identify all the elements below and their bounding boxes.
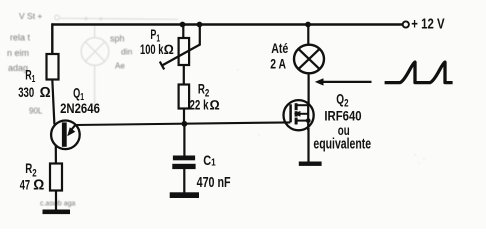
wire: node to C1	[183, 124, 185, 156]
svg-text:470 nF: 470 nF	[197, 175, 231, 191]
svg-text:rela t: rela t	[10, 33, 31, 43]
wire: rail to lamp	[307, 25, 309, 46]
wire: +12V top rail	[52, 23, 403, 25]
svg-text:100 k: 100 k	[140, 41, 164, 57]
svg-text:c.aswb aga: c.aswb aga	[40, 201, 76, 208]
svg-text:R1: R1	[25, 69, 35, 85]
ground (below R2)	[43, 210, 71, 215]
arrow: pointer to lamp wire	[315, 78, 372, 85]
junction dot: node / C1 tap	[182, 121, 188, 127]
wire: R2 to node	[183, 109, 185, 125]
transistor Q2 IRF640 (power MOSFET)	[284, 100, 314, 130]
ground (below C1)	[170, 192, 199, 198]
svg-text:330: 330	[18, 84, 34, 100]
capacitor C1	[172, 156, 195, 170]
resistor R2 (22k)	[179, 85, 190, 109]
svg-text:2 A: 2 A	[270, 55, 286, 71]
wire: node line Q1 emitter to Q2 gate	[75, 122, 290, 125]
potentiometer P1	[160, 25, 200, 70]
svg-text:47: 47	[20, 177, 31, 193]
svg-text:n eim: n eim	[7, 48, 29, 58]
resistor R1	[47, 54, 59, 80]
waveform: sawtooth (PWM ramp)	[385, 62, 453, 83]
svg-text:sph: sph	[110, 34, 125, 44]
svg-text:Ω: Ω	[40, 85, 51, 101]
wire: R1 to Q1 base2	[52, 80, 54, 125]
svg-text:Ω: Ω	[210, 98, 220, 113]
svg-text:Ω: Ω	[164, 42, 174, 57]
junction dot: rail / P1 wiper	[197, 22, 203, 28]
svg-text:90L: 90L	[29, 107, 43, 116]
junction dot: rail / P1 top	[180, 22, 186, 28]
wire: C1 to ground	[183, 169, 185, 193]
svg-text:V St +: V St +	[19, 11, 42, 21]
svg-text:2N2646: 2N2646	[60, 100, 100, 116]
lamp (load, até 2 A)	[294, 45, 324, 74]
wire: lamp to Q2 drain	[308, 73, 310, 104]
svg-text:C1: C1	[203, 153, 215, 169]
svg-text:din: din	[121, 47, 133, 57]
wire: rail to P1	[182, 25, 184, 39]
wire: R2 to ground	[55, 191, 57, 211]
svg-text:Ω: Ω	[33, 178, 44, 194]
wire: rail corner down to R1	[51, 23, 53, 54]
svg-text:equivalente: equivalente	[313, 137, 371, 153]
svg-text:+ 12 V: + 12 V	[411, 16, 444, 33]
resistor R2 (47)	[50, 164, 62, 191]
wire: Q1 base1 to R2	[55, 146, 57, 165]
wire: Q2 source to ground	[307, 128, 309, 162]
junction dot: rail / lamp	[305, 22, 311, 28]
svg-text:Até: Até	[271, 41, 288, 56]
svg-text:Ae: Ae	[115, 62, 125, 71]
wire: P1 to R2 (22k)	[183, 65, 185, 85]
terminal: +12V supply	[403, 21, 409, 27]
ground (below Q2)	[299, 162, 322, 166]
svg-text:22 k: 22 k	[190, 97, 209, 113]
transistor Q1 2N2646 (UJT)	[51, 121, 80, 150]
